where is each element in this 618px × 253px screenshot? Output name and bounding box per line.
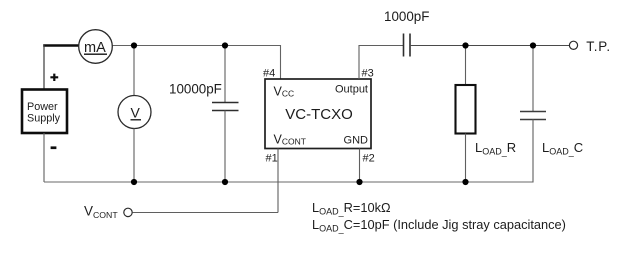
label: pin #3 [362,68,374,80]
svg-text:#3: #3 [362,68,374,80]
wire: pin #2 ground lead [359,149,361,183]
wire: Vcont rail [133,212,279,214]
resistor Lload_R [456,85,517,157]
wire: load resistor branch lower [465,134,467,183]
svg-text:GND: GND [344,135,369,147]
wire: output rail from pin #3 to coupling capacitor [359,46,403,80]
svg-text:10000pF: 10000pF [169,82,222,97]
wire: voltmeter branch lower [133,129,135,183]
wire: top rail from mA meter to pin #4 corner [113,46,281,80]
capacitor 10000pF [169,82,239,111]
svg-text:#1: #1 [266,153,278,165]
svg-text:LOAD_R: LOAD_R [475,140,516,157]
svg-text:Power: Power [27,101,58,113]
label: pin #1 [266,153,278,165]
wire: pin #1 control lead [277,149,279,213]
label: minus terminal [51,146,57,149]
svg-text:#4: #4 [263,68,275,80]
wire: thick supply segment to ammeter [43,44,79,47]
wire: load capacitor branch upper [532,46,534,112]
terminal Vcont [84,203,132,220]
power supply PS1 [22,90,67,134]
svg-text:VCONT: VCONT [84,203,118,220]
oscillator U1 VC-TCXO [265,79,371,149]
node: output rail load resistor junction [462,42,468,48]
wire: bypass capacitor branch upper [224,46,226,103]
node: top rail voltmeter junction [131,42,137,48]
label: load resistor value [312,200,391,217]
wire: power supply positive lead [43,45,45,90]
label: pin #2 [363,153,375,165]
capacitor 1000pF [384,9,429,57]
wire: power supply negative lead [43,133,45,182]
svg-text:VC-TCXO: VC-TCXO [285,106,353,123]
label: load capacitor value [312,217,566,234]
label: pin #4 [263,68,275,80]
label: plus terminal [50,74,58,81]
terminal T.P. [569,39,610,54]
svg-text:LOAD_C=10pF (Include Jig stray: LOAD_C=10pF (Include Jig stray capacitan… [312,217,566,234]
wire: load capacitor branch lower [532,120,534,183]
wire: voltmeter branch upper [133,46,135,96]
svg-text:Supply: Supply [27,112,61,124]
svg-text:#2: #2 [363,153,375,165]
svg-text:V: V [131,105,141,121]
capacitor Lload_C [520,112,583,157]
svg-text:LOAD_R=10kΩ: LOAD_R=10kΩ [312,200,391,217]
node: ground bus load resistor junction [462,179,468,185]
node: top rail bypass capacitor junction [222,42,228,48]
node: ground bus bypass capacitor junction [222,179,228,185]
wire: bypass capacitor branch lower [224,111,226,183]
node: ground bus voltmeter junction [131,179,137,185]
wire: output rail from coupling capacitor to test point [410,45,570,47]
svg-text:LOAD_C: LOAD_C [542,140,583,157]
wire: ground bus [44,181,533,183]
node: output rail load capacitor junction [530,42,536,48]
voltmeter V [118,96,151,129]
wire: load resistor branch upper [465,46,467,86]
svg-text:1000pF: 1000pF [384,9,429,24]
svg-text:Output: Output [335,84,368,96]
svg-text:T.P.: T.P. [586,39,611,54]
ammeter mA [79,30,113,64]
node: ground bus pin #2 junction [356,179,362,185]
